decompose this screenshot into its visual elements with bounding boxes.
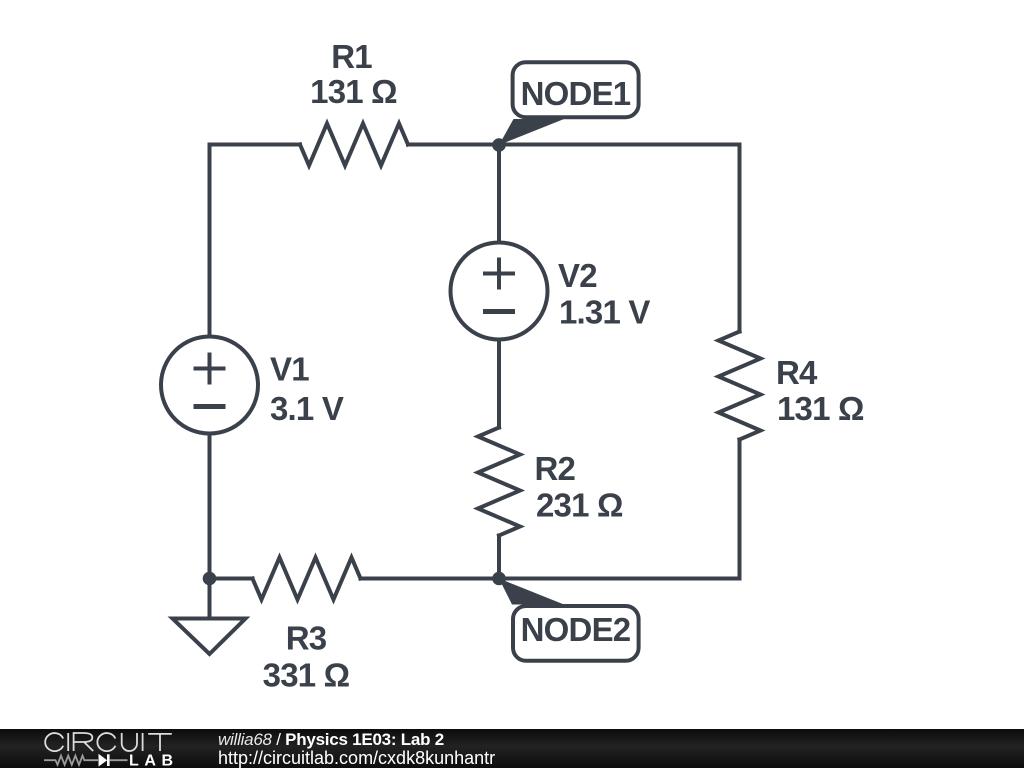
- node NODE1 callout wedge: [499, 119, 564, 145]
- svg-text:V1: V1: [270, 351, 309, 388]
- svg-text:willia68 / Physics 1E03: Lab 2: willia68 / Physics 1E03: Lab 2: [218, 730, 444, 749]
- svg-text:V2: V2: [558, 257, 597, 294]
- CircuitLab logo diode symbol: [99, 754, 108, 767]
- svg-text:NODE2: NODE2: [521, 611, 631, 648]
- wire middle vertical upper (NODE1 to V2 top): [497, 145, 501, 243]
- svg-text:R2: R2: [535, 450, 576, 487]
- svg-text:R4: R4: [776, 354, 818, 391]
- svg-text:http://circuitlab.com/cxdk8kun: http://circuitlab.com/cxdk8kunhantr: [218, 748, 495, 768]
- node NODE1 callout box: [513, 62, 639, 117]
- CircuitLab logo resistor squiggle: [44, 756, 98, 765]
- V1 minus sign: [194, 404, 226, 409]
- V1 plus sign: [194, 353, 226, 385]
- svg-text:NODE1: NODE1: [521, 75, 631, 112]
- node junction dot ground: [203, 572, 217, 586]
- wire bottom left (ground junction to R3): [210, 577, 253, 581]
- svg-text:R3: R3: [286, 620, 327, 657]
- node NODE2 callout box: [513, 606, 639, 661]
- resistor R3: [253, 558, 361, 600]
- node junction dot NODE2: [492, 572, 506, 586]
- CircuitLab logo CIRCUIT lettering: [45, 733, 172, 751]
- wire middle vertical (V2 bottom to R2 top): [497, 340, 501, 428]
- V2 minus sign: [483, 309, 515, 314]
- wire bottom horizontal (NODE2 to right): [499, 577, 740, 581]
- wire left vertical upper (top-left corner to V1 top): [210, 145, 301, 337]
- svg-text:331 Ω: 331 Ω: [263, 657, 350, 694]
- svg-text:1.31 V: 1.31 V: [559, 294, 650, 331]
- voltage source V2 circle: [451, 243, 548, 340]
- resistor R4: [719, 332, 761, 440]
- svg-text:LAB: LAB: [129, 753, 179, 768]
- resistor R1: [300, 124, 408, 166]
- svg-text:231 Ω: 231 Ω: [536, 487, 623, 524]
- wire right vertical lower (R4 bottom to bottom wire): [738, 440, 742, 579]
- node junction dot NODE1: [492, 138, 506, 152]
- wire right vertical upper (corner to R4 top): [738, 145, 742, 332]
- ground symbol stem: [208, 579, 212, 619]
- svg-text:R1: R1: [331, 38, 372, 75]
- voltage source V1 circle: [161, 337, 258, 434]
- svg-text:3.1 V: 3.1 V: [270, 390, 344, 427]
- svg-text:131 Ω: 131 Ω: [310, 73, 397, 110]
- wire left vertical lower (V1 bottom to ground junction): [208, 434, 212, 579]
- svg-text:131 Ω: 131 Ω: [777, 390, 864, 427]
- ground symbol triangle: [173, 619, 246, 655]
- node NODE2 callout wedge: [499, 579, 564, 605]
- wire top horizontal (R1 to right corner): [408, 143, 740, 147]
- wire middle vertical lower (R2 bottom to NODE2 junction): [497, 536, 501, 579]
- wire bottom horizontal (R3 right end to NODE2): [361, 577, 500, 581]
- V2 plus sign: [483, 258, 515, 290]
- resistor R2: [478, 428, 520, 536]
- footer bar: [0, 729, 1024, 768]
